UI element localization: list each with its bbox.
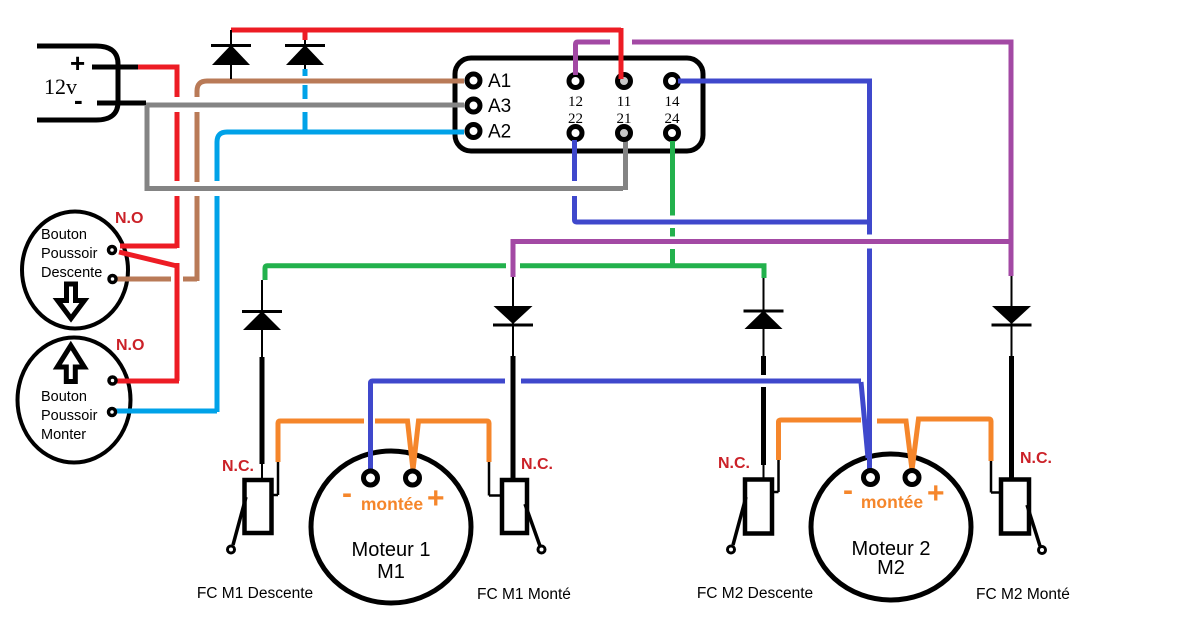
relay terminal A2 <box>467 125 480 138</box>
svg-text:N.O: N.O <box>115 210 143 227</box>
svg-text:A3: A3 <box>488 96 511 117</box>
push button S1 top terminal <box>109 247 116 254</box>
diode D4 triangle <box>992 306 1031 324</box>
diode D5 triangle <box>212 45 250 65</box>
diode D6 lead <box>304 40 306 69</box>
diode D1 cathode bar <box>242 310 282 313</box>
wire brown horizontal segment after red hop <box>183 277 197 282</box>
relay terminal 11 <box>618 75 631 88</box>
wire red top rail over diodes <box>231 28 621 33</box>
svg-text:+: + <box>927 477 945 510</box>
svg-text:22: 22 <box>568 111 583 127</box>
diode D6 triangle <box>286 45 324 65</box>
wire brown corner and horizontal into relay A1 <box>197 81 464 97</box>
svg-text:12: 12 <box>568 94 583 110</box>
limit switch FC3 side entry stub <box>772 491 779 494</box>
diode D2 cathode bar <box>493 324 533 327</box>
push button S1 down arrow <box>58 284 85 319</box>
relay terminal 22 <box>569 127 582 140</box>
wire blue pin 22 drop and mid horizontal run <box>575 196 870 222</box>
svg-text:N.C.: N.C. <box>521 456 553 473</box>
wire cyan dashed link diode D6 to A2 net <box>303 69 308 130</box>
limit switch FC2 lever roller <box>538 546 545 553</box>
limit switch FC3 body <box>745 480 772 534</box>
limit switch FC3 lever roller <box>728 546 735 553</box>
svg-text:Bouton: Bouton <box>41 227 87 243</box>
svg-text:FC M2 Descente: FC M2 Descente <box>697 585 813 602</box>
push button S1 bottom terminal <box>109 276 116 283</box>
battery BT1 12v body <box>37 46 118 120</box>
diode D2 triangle <box>494 306 533 324</box>
wire green pin 24 drop between blue and purple <box>670 228 675 237</box>
limit switch FC3 side entry lead <box>777 460 780 492</box>
svg-text:N.C.: N.C. <box>222 458 254 475</box>
diode D4 cathode bar <box>992 324 1032 327</box>
wire green pin 24 drop upper segment <box>670 141 675 216</box>
motor M1 body circle <box>311 451 471 603</box>
push button S2 top terminal <box>109 377 116 384</box>
wire purple mid run to diode D2 drop <box>513 242 1011 278</box>
wire brown vertical segment below gray net <box>195 196 200 281</box>
limit switch FC3 lever <box>733 497 746 545</box>
diode D3 thick lead above blue hop <box>761 356 766 375</box>
wire cyan vertical segment below gray line <box>215 196 220 412</box>
wire green pin 24 drop below purple <box>670 249 675 266</box>
wire blue motor M1 minus riser and lower horizontal run <box>371 381 506 470</box>
wire orange motor M1 plus dip and run to FC M1 Monte <box>375 421 489 470</box>
wire cyan vertical and horizontal into relay A2 <box>217 132 464 181</box>
wire blue pin 22 drop upper segment <box>572 140 577 181</box>
wire red diagonal from S1 terminal to vertical run <box>119 252 177 266</box>
wire blue diagonal into motor M2 minus terminal <box>861 382 868 458</box>
limit switch FC1 lever roller <box>228 546 235 553</box>
push button S2 up arrow <box>57 346 84 382</box>
motor M2 body circle <box>811 454 971 600</box>
diode D2 upper lead <box>512 277 514 356</box>
wire blue pin 14 to right vertical run <box>678 81 870 235</box>
diode D4 thick lower lead <box>1009 356 1014 480</box>
svg-text:FC M1 Descente: FC M1 Descente <box>197 585 313 602</box>
limit switch FC1 body <box>245 480 272 533</box>
relay terminal 21 <box>618 127 631 140</box>
svg-text:M2: M2 <box>877 557 905 579</box>
svg-text:Poussoir: Poussoir <box>41 246 98 262</box>
limit switch FC4 lever <box>1027 505 1040 546</box>
wire red battery+ horizontal to corner <box>138 65 177 70</box>
svg-text:A1: A1 <box>488 71 511 92</box>
push button S2 (monter) body circle <box>18 338 131 463</box>
svg-text:M1: M1 <box>377 561 405 583</box>
wire red vertical segment down to S1 level <box>175 196 180 248</box>
svg-text:N.C.: N.C. <box>1020 450 1052 467</box>
diode D1 thick lower lead <box>260 357 265 464</box>
limit switch FC4 body <box>1001 480 1029 534</box>
limit switch FC4 lever roller <box>1039 547 1046 554</box>
svg-text:-: - <box>843 474 853 507</box>
svg-text:Monter: Monter <box>41 427 86 443</box>
svg-text:FC M2 Monté: FC M2 Monté <box>976 586 1070 603</box>
svg-text:+: + <box>70 48 85 78</box>
push button S2 bottom terminal <box>109 409 116 416</box>
svg-text:FC M1 Monté: FC M1 Monté <box>477 586 571 603</box>
diode D5 cathode bar <box>211 44 251 47</box>
relay terminal 24 <box>666 127 679 140</box>
limit switch FC4 side entry stub <box>991 491 1001 494</box>
diode D3 triangle <box>745 311 783 330</box>
limit switch FC1 lever <box>233 497 246 545</box>
wire blue right vertical run to motor M2 minus terminal <box>867 249 872 470</box>
relay terminal A3 <box>467 99 480 112</box>
wire red vertical segment between gray lines <box>175 112 180 181</box>
motor M1 plus terminal <box>406 471 420 485</box>
limit switch FC4 side entry lead <box>990 461 993 493</box>
wire orange FC M1 Descente to motor M1 run <box>278 421 364 462</box>
diode D1 upper lead <box>261 280 263 357</box>
svg-text:N.C.: N.C. <box>718 455 750 472</box>
limit switch FC1 side entry stub <box>271 494 278 497</box>
wire red horizontal into S2 top terminal <box>116 379 179 384</box>
wire cyan S2 bottom terminal horizontal <box>116 409 217 414</box>
diode D3 thin lead into switch FC3 <box>763 465 765 480</box>
svg-text:-: - <box>342 477 352 510</box>
diode D1 thin lead into switch FC1 <box>261 464 263 481</box>
wire gray battery- horizontal into relay A3 <box>146 103 464 108</box>
limit switch FC2 lever <box>525 504 540 546</box>
wire red stub to diode D6 <box>303 30 308 40</box>
svg-text:24: 24 <box>665 111 681 127</box>
wire green horizontal run to diode D3 drop <box>520 266 764 278</box>
motor M1 minus terminal <box>364 471 378 485</box>
svg-text:montée: montée <box>861 492 924 512</box>
svg-text:N.O: N.O <box>116 337 144 354</box>
wire brown S1 bottom terminal horizontal segment <box>117 277 171 282</box>
wire purple top run to right drop at diode D4 <box>632 42 1011 276</box>
diode D3 cathode bar <box>744 310 784 313</box>
diode D6 cathode bar <box>285 44 325 47</box>
svg-text:Bouton: Bouton <box>41 389 87 405</box>
battery - terminal lead <box>97 101 146 106</box>
relay terminal 14 <box>666 75 679 88</box>
motor M2 minus terminal <box>864 471 878 485</box>
limit switch FC2 side entry lead <box>488 462 491 496</box>
diode D1 triangle <box>243 311 281 330</box>
svg-text:11: 11 <box>617 94 631 110</box>
wire red drop into relay pin 11 <box>619 28 624 74</box>
wire red vertical down to S2 level <box>175 263 180 381</box>
wire gray vertical and lower horizontal to pin 21 column <box>147 105 623 189</box>
wire green horizontal run to diode D1 <box>265 266 506 280</box>
wire orange FC M2 Monte to motor M2 plus dip <box>877 419 991 470</box>
diode D4 upper lead <box>1011 276 1013 356</box>
limit switch FC2 body <box>502 480 527 533</box>
wire orange run to FC M2 Descente <box>779 420 862 460</box>
svg-text:14: 14 <box>665 94 681 110</box>
diode D2 thick lower lead <box>511 356 516 480</box>
relay terminal 12 <box>569 75 582 88</box>
svg-text:-: - <box>74 85 83 115</box>
svg-text:Moteur 1: Moteur 1 <box>352 539 431 561</box>
limit switch FC2 side entry stub <box>489 494 502 497</box>
wire red vertical segment above gray A3 line <box>175 65 180 98</box>
svg-text:+: + <box>427 482 445 515</box>
wire red horizontal into S1 top terminal <box>120 244 177 249</box>
push button S1 (descente) body circle <box>22 212 128 329</box>
wire purple pin 12 riser and top run <box>576 42 611 75</box>
diode D5 lead (red rail to brown net) <box>230 30 232 79</box>
motor M2 plus terminal <box>905 471 919 485</box>
wire gray riser into relay pin 21 <box>623 141 628 190</box>
diode D3 upper lead <box>763 278 765 356</box>
svg-text:montée: montée <box>361 494 424 514</box>
wire red overlay entering terminal 11 <box>619 70 624 79</box>
wire brown vertical segment between gray lines <box>195 112 200 182</box>
wire blue lower horizontal run after D2 hop <box>521 379 861 384</box>
svg-text:Descente: Descente <box>41 265 102 281</box>
diode D3 thick lead below blue hop <box>761 387 766 465</box>
battery + terminal lead <box>92 65 141 70</box>
limit switch FC1 side entry lead <box>277 462 280 495</box>
svg-text:Poussoir: Poussoir <box>41 408 98 424</box>
svg-text:21: 21 <box>617 111 632 127</box>
relay terminal A1 <box>467 74 480 87</box>
svg-text:A2: A2 <box>488 122 511 143</box>
relay K1 body outline <box>455 58 703 151</box>
